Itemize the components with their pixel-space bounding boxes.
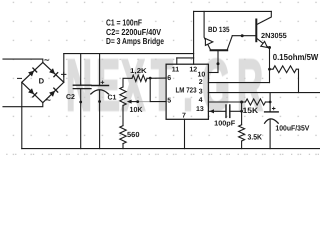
wire emitter down to sense <box>268 47 271 83</box>
wire pin2 current limit line <box>208 82 269 84</box>
ground bottom rail <box>22 148 320 150</box>
svg-text:13: 13 <box>196 106 204 113</box>
svg-text:D: D <box>39 77 45 86</box>
wire pin13 stub + arrow <box>208 109 226 113</box>
diode D-BR <box>49 88 58 97</box>
node + polarity marks bridge <box>18 72 104 84</box>
svg-text:2: 2 <box>199 79 203 86</box>
wire V+ riser pins 11 12 <box>177 11 194 64</box>
op-amp U1 LM723 box <box>166 64 208 119</box>
svg-text:100pF: 100pF <box>214 118 236 127</box>
wire bridge plus riser <box>63 54 65 83</box>
svg-text:7: 7 <box>182 112 186 119</box>
capacitor 100pF <box>226 105 242 117</box>
resistor R 1,2K <box>123 75 166 87</box>
wire pin4 line <box>208 101 245 104</box>
resistor 0.15ohm/5W <box>270 66 299 93</box>
svg-text:10: 10 <box>198 71 206 78</box>
wire AC input top <box>3 59 43 62</box>
wire bridge minus to ground rail <box>21 82 23 148</box>
transistor Q2 2N3055 <box>256 11 271 49</box>
svg-text:C1 = 100nF: C1 = 100nF <box>106 17 142 27</box>
svg-text:3.5K: 3.5K <box>248 132 263 141</box>
wire pin5 net / wiper to LM723 <box>150 78 166 102</box>
svg-text:10K: 10K <box>130 105 144 114</box>
svg-text:15K: 15K <box>243 106 259 115</box>
svg-text:6: 6 <box>167 75 171 82</box>
svg-text:BD 135: BD 135 <box>208 25 230 34</box>
svg-text:0.15ohm/5W: 0.15ohm/5W <box>273 52 319 62</box>
svg-text:11: 11 <box>172 66 180 73</box>
extra grid dot row <box>6 154 319 155</box>
wire collector top rail <box>194 10 272 12</box>
potentiometer 10K <box>120 87 150 106</box>
svg-text:D= 3 Amps Bridge: D= 3 Amps Bridge <box>106 36 164 46</box>
bridge diamond D <box>22 62 64 102</box>
svg-text:3: 3 <box>199 89 203 96</box>
capacitor 100uF/35V <box>265 93 279 149</box>
diode D-TR <box>49 68 58 77</box>
grid dots background <box>0 0 320 162</box>
resistor 3.5K <box>239 125 245 149</box>
svg-text:C1: C1 <box>108 95 117 102</box>
wire pin7 ground <box>184 119 186 148</box>
wire pin10 stub <box>208 72 218 74</box>
svg-text:~: ~ <box>44 55 49 65</box>
resistor 560 <box>120 106 126 149</box>
svg-text:100uF/35V: 100uF/35V <box>275 124 309 133</box>
svg-text:2N3055: 2N3055 <box>261 31 287 40</box>
wire output rail pin3 <box>208 92 320 94</box>
resistor 15K <box>245 99 270 105</box>
svg-text:5: 5 <box>167 98 171 105</box>
diode D-BL <box>28 88 37 97</box>
transistor Q1 BD135 <box>204 11 232 72</box>
watermark NEXT.GR <box>66 50 92 122</box>
capacitor C1 <box>91 54 109 149</box>
svg-text:560: 560 <box>127 130 140 139</box>
svg-text:1,2K: 1,2K <box>130 68 147 75</box>
diode D-TL <box>28 68 37 77</box>
wire AC input bottom <box>3 103 43 107</box>
svg-text:C2: C2 <box>66 94 75 101</box>
svg-text:~: ~ <box>46 95 51 105</box>
capacitor C2 <box>73 54 91 149</box>
wire raw DC top rail <box>64 53 194 55</box>
svg-text:4: 4 <box>199 97 203 104</box>
wire divider node vertical <box>240 102 243 125</box>
svg-text:LM 723: LM 723 <box>176 85 197 94</box>
svg-text:12: 12 <box>189 66 197 73</box>
wire BD135 collector to Q2 base <box>232 34 256 37</box>
